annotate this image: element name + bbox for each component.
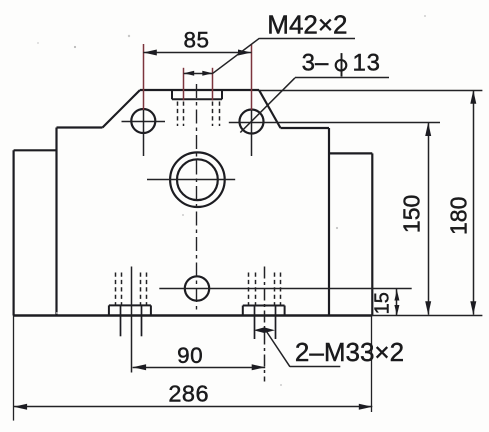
svg-text:M42×2: M42×2 [267,10,347,40]
svg-text:85: 85 [183,27,209,52]
svg-text:150: 150 [398,195,424,233]
svg-text:180: 180 [446,197,472,235]
svg-text:286: 286 [168,381,209,407]
svg-text:3–: 3– [302,50,329,77]
svg-text:15: 15 [371,292,393,314]
svg-text:13: 13 [352,49,380,76]
svg-text:2–M33×2: 2–M33×2 [295,337,404,367]
svg-text:90: 90 [177,343,203,368]
